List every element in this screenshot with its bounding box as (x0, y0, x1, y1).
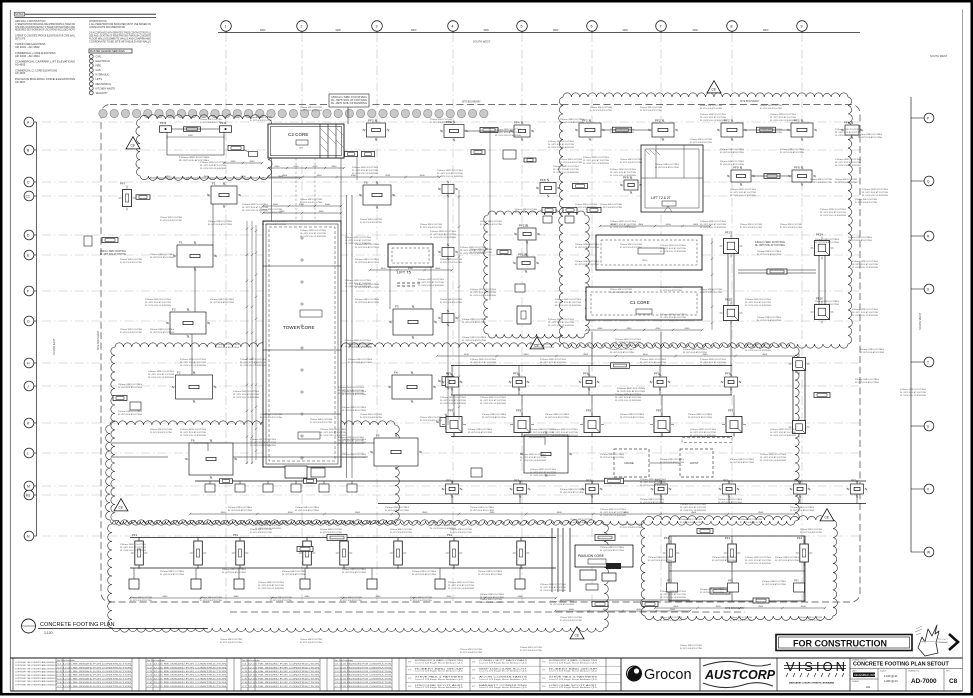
svg-text:150mm SRF FOOTING: 150mm SRF FOOTING (100, 251, 126, 253)
svg-text:RL -9975 SOIL AT FOOTING: RL -9975 SOIL AT FOOTING (300, 201, 322, 204)
footing bottom strip square #4 (300, 568, 310, 589)
drawing title section (850, 659, 963, 692)
ML band second chord (112, 456, 368, 458)
revision cloud bottom-right (641, 516, 838, 621)
svg-text:Rev Date Description: Rev Date Description (57, 659, 75, 662)
svg-text:150mm SRF FOOTING: 150mm SRF FOOTING (310, 419, 332, 421)
svg-text:150mm SRF FOOTING: 150mm SRF FOOTING (300, 639, 322, 641)
svg-text:RL -9975 SOIL AT FOOTING: RL -9975 SOIL AT FOOTING (545, 416, 569, 419)
svg-text:150mm SRF FOOTING: 150mm SRF FOOTING (120, 259, 142, 261)
svg-text:150mm SRF FOOTING: 150mm SRF FOOTING (617, 388, 645, 390)
svg-text:PF5: PF5 (586, 409, 592, 413)
svg-text:8: 8 (731, 25, 733, 29)
svg-text:150mm SRF FOOTING: 150mm SRF FOOTING (740, 519, 762, 521)
footing cloud-C pad a (514, 224, 540, 245)
svg-text:M: M (27, 484, 30, 488)
right grid line and bubbles (911, 97, 934, 557)
row3 beam bar (605, 478, 624, 484)
right small pads column (436, 181, 458, 431)
master legend symbol list (89, 55, 115, 95)
svg-text:RL -9975 SOIL AT FOOTING: RL -9975 SOIL AT FOOTING (520, 456, 546, 459)
Vision logo box (784, 658, 850, 691)
svg-text:9000: 9000 (411, 29, 417, 32)
svg-text:RL -9970 SOIL OF BLINDING: RL -9970 SOIL OF BLINDING (852, 267, 878, 269)
svg-text:RL -9975 SOIL AT FOOTING: RL -9975 SOIL AT FOOTING (552, 431, 578, 434)
bars pair below C2 (345, 152, 375, 157)
footing bottom strip tall #3 (x=240) (232, 533, 249, 569)
svg-text:150mm SRF FOOTING: 150mm SRF FOOTING (683, 349, 708, 351)
footing bottom strip tall #2 (x=198) (190, 537, 207, 569)
svg-text:150mm SRF FOOTING: 150mm SRF FOOTING (360, 414, 382, 416)
top grid line and bubbles 1-9 (218, 21, 860, 33)
svg-text:RL -9975 SOIL AT FOOTING: RL -9975 SOIL AT FOOTING (620, 161, 642, 164)
svg-text:150mm SRF FOOTING: 150mm SRF FOOTING (700, 589, 725, 591)
svg-text:RL -9970 SOIL OF BLINDING: RL -9970 SOIL OF BLINDING (640, 485, 666, 487)
svg-text:RL -9970 SOIL OF BLINDING: RL -9970 SOIL OF BLINDING (555, 305, 581, 307)
footing bottom strip tall #4 (x=307) (299, 537, 316, 569)
svg-text:AG: AG (866, 685, 871, 689)
footing row3 #6 (x=800) (790, 479, 811, 504)
svg-text:150mm SRF FOOTING: 150mm SRF FOOTING (470, 359, 496, 361)
svg-text:150mm SRF FOOTING: 150mm SRF FOOTING (900, 389, 926, 391)
svg-text:150mm SRF FOOTING: 150mm SRF FOOTING (242, 204, 268, 206)
svg-text:C2 12.05 RE-ISSUED FOR CONSTRU: C2 12.05 RE-ISSUED FOR CONSTRUCTION (335, 667, 392, 669)
scattered annotation notes set 2 (118, 119, 885, 606)
svg-text:150mm SRF FOOTING: 150mm SRF FOOTING (640, 499, 665, 501)
svg-text:3600: 3600 (188, 135, 194, 137)
svg-text:CF10: CF10 (642, 260, 648, 262)
svg-text:RL -9975 SOIL AT FOOTING: RL -9975 SOIL AT FOOTING (640, 361, 666, 364)
svg-text:C8: C8 (119, 506, 123, 510)
svg-text:150mm SRF FOOTING: 150mm SRF FOOTING (620, 159, 642, 161)
TL note text (179, 157, 210, 162)
svg-text:RL -9975 SOIL AT FOOTING: RL -9975 SOIL AT FOOTING (130, 599, 152, 602)
footing bottom strip tall #5 (x=344) (336, 533, 353, 569)
svg-text:RL -9975 SOIL AT FOOTING: RL -9975 SOIL AT FOOTING (282, 573, 306, 576)
svg-text:RL -9970 SOIL OF BLINDING: RL -9970 SOIL OF BLINDING (250, 445, 276, 447)
left boundary bar cluster (113, 396, 141, 411)
svg-text:4500: 4500 (666, 224, 672, 226)
svg-text:RL -9975 SOIL AT FOOTING: RL -9975 SOIL AT FOOTING (210, 301, 234, 304)
bottom strip bar d (297, 547, 313, 552)
svg-text:150mm SRF FOOTING: 150mm SRF FOOTING (555, 299, 581, 301)
hoist base dashed box (680, 449, 713, 477)
svg-text:150mm SRF FOOTING: 150mm SRF FOOTING (712, 557, 737, 559)
svg-text:150mm SRF FOOTING: 150mm SRF FOOTING (820, 209, 846, 211)
svg-text:4500: 4500 (673, 606, 679, 608)
bottom strip bar c (710, 588, 730, 594)
svg-text:RL -9975 SOIL AT FOOTING: RL -9975 SOIL AT FOOTING (660, 593, 686, 596)
dim vertical right col448 (458, 190, 460, 420)
C2 core dimension row below (267, 166, 345, 169)
svg-text:W: W (927, 550, 930, 554)
lift T5 to pad connector walls (390, 267, 431, 309)
svg-text:RL -9975 SOIL AT FOOTING: RL -9975 SOIL AT FOOTING (700, 107, 722, 110)
svg-text:C4 12.05 RE-ISSUED FOR CONSTRU: C4 12.05 RE-ISSUED FOR CONSTRUCTION (147, 675, 227, 677)
svg-text:150mm SRF FOOTING: 150mm SRF FOOTING (648, 557, 673, 559)
svg-text:4500: 4500 (351, 175, 357, 177)
svg-text:RL -9970 SOIL OF BLINDING: RL -9970 SOIL OF BLINDING (700, 227, 726, 229)
svg-text:RL -9975 SOIL AT FOOTING: RL -9975 SOIL AT FOOTING (430, 524, 456, 527)
footing bottom strip tall #8 (x=521) (513, 537, 530, 569)
svg-text:DECEMBER 2005: DECEMBER 2005 (854, 673, 876, 677)
svg-text:150mm SRF FOOTING: 150mm SRF FOOTING (770, 114, 796, 116)
svg-text:SOUTH WEST: SOUTH WEST (918, 312, 922, 330)
svg-text:ELECTRICAL: ELECTRICAL (96, 60, 111, 63)
svg-text:150mm SRF FOOTING: 150mm SRF FOOTING (570, 519, 592, 521)
svg-text:RL -9975 SOIL AT FOOTING: RL -9975 SOIL AT FOOTING (555, 301, 581, 304)
svg-text:PF1: PF1 (794, 479, 800, 483)
svg-text:RL -9970 SOIL OF BLINDING: RL -9970 SOIL OF BLINDING (495, 135, 521, 137)
svg-text:RL -9975 SOIL AT FOOTING: RL -9975 SOIL AT FOOTING (348, 346, 372, 349)
svg-text:3: 3 (376, 25, 378, 29)
svg-text:RL -9975 SOIL AT FOOTING: RL -9975 SOIL AT FOOTING (462, 321, 486, 324)
svg-text:AD 4603 - AD 4604: AD 4603 - AD 4604 (15, 55, 40, 58)
svg-text:RL -9975 SOIL AT FOOTING: RL -9975 SOIL AT FOOTING (420, 226, 442, 229)
svg-text:PF16: PF16 (816, 297, 823, 301)
svg-text:C6 12.05 RE-ISSUED FOR CONSTRU: C6 12.05 RE-ISSUED FOR CONSTRUCTION (57, 682, 132, 684)
svg-text:C4 12.05 RE-ISSUED FOR CONSTRU: C4 12.05 RE-ISSUED FOR CONSTRUCTION (242, 675, 320, 677)
svg-text:RL -9975 SOIL AT FOOTING: RL -9975 SOIL AT FOOTING (660, 619, 682, 622)
svg-text:F8: F8 (364, 181, 368, 185)
svg-text:150mm SRF FOOTING: 150mm SRF FOOTING (718, 499, 743, 501)
svg-text:SOUTH WEST: SOUTH WEST (473, 40, 491, 44)
svg-text:C8: C8 (575, 634, 579, 638)
svg-text:RL -9975 SOIL AT FOOTING: RL -9975 SOIL AT FOOTING (208, 223, 232, 226)
footing T5 base pad (389, 305, 437, 340)
footing bottom strip square #6 (435, 568, 445, 589)
svg-text:PF11: PF11 (519, 224, 526, 228)
svg-text:RL -9975 SOIL AT FOOTING: RL -9975 SOIL AT FOOTING (437, 172, 463, 175)
plan title bubble (22, 619, 36, 633)
svg-text:KITCHEN WASTE: KITCHEN WASTE (96, 87, 116, 90)
svg-text:150mm SRF FOOTING: 150mm SRF FOOTING (179, 157, 210, 159)
svg-text:150mm SRF FOOTING: 150mm SRF FOOTING (620, 244, 642, 246)
row1 beam note (617, 388, 645, 393)
svg-text:LIFTS: LIFTS (96, 78, 103, 81)
svg-text:150mm SRF FOOTING: 150mm SRF FOOTING (482, 414, 507, 416)
svg-text:Rev Date Description: Rev Date Description (335, 659, 353, 662)
svg-text:RL -9975 SOIL AT FOOTING: RL -9975 SOIL AT FOOTING (820, 211, 846, 214)
svg-text:150mm SRF FOOTING: 150mm SRF FOOTING (700, 221, 726, 223)
footing PF4 col5 (510, 121, 534, 142)
svg-text:RL -9975 SOIL AT FOOTING: RL -9975 SOIL AT FOOTING (410, 599, 432, 602)
link line top row (172, 128, 220, 130)
svg-text:SOUTH EAST: SOUTH EAST (52, 338, 56, 355)
svg-text:PF1: PF1 (583, 372, 589, 376)
footing PF1 row1 #1 (x=452) (442, 366, 463, 396)
svg-text:DATE: DATE (852, 670, 857, 673)
svg-text:RL -9970 SOIL OF BLINDING: RL -9970 SOIL OF BLINDING (690, 435, 716, 437)
svg-text:4500: 4500 (801, 606, 807, 608)
svg-text:PF1: PF1 (797, 536, 803, 540)
footing PF1 row1 #4 (x=660) (650, 366, 671, 396)
svg-text:RL -9970 SOIL OF BLINDING: RL -9970 SOIL OF BLINDING (258, 588, 284, 590)
svg-text:HOIST: HOIST (690, 461, 699, 465)
svg-text:PF1: PF1 (664, 536, 670, 540)
svg-text:RL -9975 SOIL AT FOOTING: RL -9975 SOIL AT FOOTING (560, 491, 584, 494)
left note small box (84, 236, 126, 256)
dim chain lift t2 (599, 224, 711, 227)
svg-text:RL -9975 SOIL AT FOOTING: RL -9975 SOIL AT FOOTING (495, 131, 521, 134)
svg-text:C5 12.05 RE-ISSUED FOR CONSTRU: C5 12.05 RE-ISSUED FOR CONSTRUCTION (147, 678, 227, 680)
tie bar 770 upper (764, 174, 780, 179)
svg-text:RL -9975 SOIL AT FOOTING: RL -9975 SOIL AT FOOTING (575, 263, 599, 266)
svg-text:PF1: PF1 (513, 372, 519, 376)
svg-text:RL -9975 SOIL AT FOOTING: RL -9975 SOIL AT FOOTING (240, 361, 266, 364)
lift T5 pit (388, 244, 433, 286)
svg-text:RL -9975 SOIL AT FOOTING: RL -9975 SOIL AT FOOTING (730, 461, 754, 464)
svg-text:150mm SRF FOOTING: 150mm SRF FOOTING (348, 344, 373, 346)
svg-text:RL -9975 SOIL AT FOOTING: RL -9975 SOIL AT FOOTING (640, 501, 664, 504)
footing bottom strip tall #6 (x=398) (390, 537, 407, 569)
svg-text:RL -9975 SOIL AT FOOTING: RL -9975 SOIL AT FOOTING (600, 456, 624, 459)
svg-text:RL -9970 SOIL OF BLINDING: RL -9970 SOIL OF BLINDING (352, 173, 378, 175)
svg-text:RL -9975 SOIL AT FOOTING: RL -9975 SOIL AT FOOTING (222, 571, 246, 574)
svg-text:RL -9975 SOIL AT FOOTING: RL -9975 SOIL AT FOOTING (800, 619, 822, 622)
svg-text:F2: F2 (172, 308, 176, 312)
svg-text:RL -9975 SOIL AT FOOTING: RL -9975 SOIL AT FOOTING (762, 583, 786, 586)
svg-text:PF5: PF5 (448, 409, 454, 413)
svg-text:RL -9975 SOIL AT FOOTING: RL -9975 SOIL AT FOOTING (720, 151, 744, 154)
svg-text:RL -9970 SOIL OF BLINDING: RL -9970 SOIL OF BLINDING (900, 395, 926, 397)
svg-text:150mm SRF FOOTING: 150mm SRF FOOTING (412, 571, 437, 573)
grade beam row 1 top chord (451, 365, 732, 367)
svg-text:150mm SRF FOOTING: 150mm SRF FOOTING (470, 249, 492, 251)
svg-text:4500: 4500 (638, 224, 644, 226)
svg-text:RL -9975 SOIL AT FOOTING: RL -9975 SOIL AT FOOTING (610, 171, 636, 174)
svg-text:150mm SRF FOOTING: 150mm SRF FOOTING (700, 289, 722, 291)
svg-text:RL -9970 SOIL OF BLINDING: RL -9970 SOIL OF BLINDING (437, 176, 463, 178)
svg-text:RL -9975 SOIL AT FOOTING: RL -9975 SOIL AT FOOTING (355, 246, 379, 249)
scattered annotation notes (120, 114, 926, 599)
svg-text:RL -9975 SOIL AT FOOTING: RL -9975 SOIL AT FOOTING (640, 481, 666, 484)
svg-text:4: 4 (452, 25, 454, 29)
svg-text:RL -9975 SOIL AT FOOTING: RL -9975 SOIL AT FOOTING (255, 524, 281, 527)
footing bottom strip tall #7 (x=454) (446, 533, 463, 569)
svg-text:RL -9975 SOIL AT FOOTING: RL -9975 SOIL AT FOOTING (730, 191, 756, 194)
svg-text:150mm SRF FOOTING: 150mm SRF FOOTING (300, 230, 326, 232)
svg-text:RL -9975 SOIL AT FOOTING: RL -9975 SOIL AT FOOTING (390, 531, 412, 534)
svg-text:RL -9975 SOIL AT FOOTING: RL -9975 SOIL AT FOOTING (815, 241, 839, 244)
svg-text:150mm SRF FOOTING: 150mm SRF FOOTING (355, 299, 380, 301)
svg-text:150mm SRF FOOTING: 150mm SRF FOOTING (320, 529, 342, 531)
svg-text:RL -9975 SOIL AT FOOTING: RL -9975 SOIL AT FOOTING (418, 281, 444, 284)
svg-text:PF13: PF13 (725, 231, 732, 235)
svg-text:150mm SRF FOOTING: 150mm SRF FOOTING (480, 599, 502, 601)
svg-text:RL -9975 SOIL AT FOOTING: RL -9975 SOIL AT FOOTING (150, 431, 172, 434)
svg-text:AD 4605: AD 4605 (15, 64, 26, 67)
footing PF14 top-right (811, 233, 834, 260)
footing row3 left cluster #4 (x=296) (291, 481, 301, 492)
svg-text:150mm SRF FOOTING: 150mm SRF FOOTING (208, 221, 233, 223)
svg-text:RL -9975 SOIL AT FOOTING: RL -9975 SOIL AT FOOTING (810, 181, 832, 184)
svg-text:150mm SRF FOOTING: 150mm SRF FOOTING (800, 529, 822, 531)
footing row3 left cluster #1 (x=210) (205, 481, 215, 492)
svg-text:RL -9975 SOIL AT FOOTING: RL -9975 SOIL AT FOOTING (120, 261, 142, 264)
cluster east of C2 bars (471, 150, 536, 162)
svg-text:RL -9975 SOIL AT FOOTING: RL -9975 SOIL AT FOOTING (600, 511, 626, 514)
svg-text:RL -9975 SOIL AT FOOTING: RL -9975 SOIL AT FOOTING (515, 211, 537, 214)
svg-text:150mm SRF FOOTING: 150mm SRF FOOTING (385, 507, 410, 509)
revision cloud centre (left of C1 core) (484, 211, 590, 338)
svg-text:RL -9975 SOIL AT FOOTING: RL -9975 SOIL AT FOOTING (352, 169, 378, 172)
svg-text:AD 4607: AD 4607 (15, 81, 26, 84)
left grid line and bubbles A-N (24, 117, 36, 541)
svg-text:RL -9975 SOIL AT FOOTING: RL -9975 SOIL AT FOOTING (412, 573, 436, 576)
inner border right line (962, 10, 964, 692)
svg-text:C3 12.05 RE-ISSUED FOR CONSTRU: C3 12.05 RE-ISSUED FOR CONSTRUCTION (147, 671, 227, 673)
svg-text:RL -9970 SOIL OF BLINDING: RL -9970 SOIL OF BLINDING (745, 350, 771, 352)
svg-text:150mm SRF FOOTING: 150mm SRF FOOTING (478, 571, 503, 573)
footing pad 633 (620, 176, 642, 195)
svg-text:150mm SRF FOOTING: 150mm SRF FOOTING (420, 417, 442, 419)
svg-text:150mm SRF FOOTING: 150mm SRF FOOTING (200, 119, 222, 121)
svg-text:150mm SRF FOOTING: 150mm SRF FOOTING (282, 571, 307, 573)
tower core walls (263, 221, 341, 478)
svg-text:RL -9975 SOIL AT FOOTING: RL -9975 SOIL AT FOOTING (745, 559, 771, 562)
revision triangle C8 #4 (114, 499, 128, 511)
BR bar bottom (753, 598, 769, 603)
svg-text:PF1: PF1 (233, 533, 239, 537)
master legend header (89, 49, 132, 53)
svg-text:150mm SRF FOOTING: 150mm SRF FOOTING (600, 547, 625, 549)
svg-text:RL -9970 SOIL OF BLINDING: RL -9970 SOIL OF BLINDING (233, 397, 259, 399)
svg-text:150mm SRF FOOTING: 150mm SRF FOOTING (250, 439, 276, 441)
svg-text:150mm SRF FOOTING: 150mm SRF FOOTING (480, 594, 505, 596)
secondary boundary dashed line bottom (230, 611, 745, 613)
dim vertical C1 right (711, 238, 713, 330)
svg-text:RL -9970 SOIL OF BLINDING: RL -9970 SOIL OF BLINDING (548, 147, 574, 149)
C1 core lower wall (586, 287, 702, 320)
svg-text:RL -9970 SOIL OF BLINDING: RL -9970 SOIL OF BLINDING (760, 460, 786, 462)
svg-text:RL -9975 SOIL AT FOOTING: RL -9975 SOIL AT FOOTING (615, 396, 641, 399)
dim chain below C2 (267, 175, 441, 178)
svg-text:150mm SRF FOOTING: 150mm SRF FOOTING (700, 105, 722, 107)
tie beam horizontal (738, 270, 816, 273)
svg-text:150mm SRF FOOTING: 150mm SRF FOOTING (560, 159, 582, 161)
svg-text:PF2: PF2 (655, 119, 661, 123)
C2 core to tower connector walls (272, 158, 342, 221)
svg-text:COPYRIGHT THE CONCEPTS AND DES: COPYRIGHT THE CONCEPTS AND DESIGN OF (15, 661, 58, 664)
svg-text:RL -9975 SOIL AT FOOTING: RL -9975 SOIL AT FOOTING (440, 399, 466, 402)
svg-text:4500: 4500 (716, 606, 722, 608)
svg-text:RL -9975 SOIL AT FOOTING: RL -9975 SOIL AT FOOTING (855, 381, 879, 384)
footing top right b (648, 119, 678, 142)
svg-text:RL -9975 SOIL AT FOOTING: RL -9975 SOIL AT FOOTING (148, 373, 174, 376)
svg-text:RL -9975 SOIL AT FOOTING: RL -9975 SOIL AT FOOTING (660, 289, 682, 292)
svg-text:RL -9975 SOIL AT FOOTING: RL -9975 SOIL AT FOOTING (270, 599, 292, 602)
svg-text:DRAWING No: DRAWING No (908, 670, 919, 673)
svg-text:RL -9970 SOIL OF BLINDING: RL -9970 SOIL OF BLINDING (200, 168, 226, 170)
svg-text:150mm SRF FOOTING: 150mm SRF FOOTING (145, 299, 171, 301)
C1 core dimension row (585, 328, 703, 331)
svg-text:RL -9975 SOIL AT FOOTING: RL -9975 SOIL AT FOOTING (385, 509, 409, 512)
svg-text:RL -9975 SOIL AT FOOTING: RL -9975 SOIL AT FOOTING (180, 431, 206, 434)
svg-text:RL -9975 SOIL AT FOOTING: RL -9975 SOIL AT FOOTING (550, 603, 574, 606)
svg-text:150mm SRF FOOTING: 150mm SRF FOOTING (560, 617, 582, 619)
grade beam row 3 bottom chord (378, 503, 866, 505)
svg-text:PF1: PF1 (723, 479, 729, 483)
dim chain pavilion (554, 609, 691, 612)
svg-text:150mm SRF FOOTING: 150mm SRF FOOTING (345, 340, 371, 342)
svg-text:4500: 4500 (524, 354, 530, 356)
svg-text:150mm SRF FOOTING: 150mm SRF FOOTING (348, 359, 373, 361)
svg-text:C7 12.05 RE-ISSUED FOR CONSTRU: C7 12.05 RE-ISSUED FOR CONSTRUCTION (147, 686, 227, 688)
svg-text:SOUTH WEST: SOUTH WEST (930, 54, 948, 58)
svg-text:RL -9975 SOIL AT FOOTING: RL -9975 SOIL AT FOOTING (342, 393, 366, 396)
svg-text:150mm SRF FOOTING: 150mm SRF FOOTING (745, 344, 771, 346)
footing BR tall #1 (663, 536, 680, 601)
BR beam loop (669, 536, 805, 601)
C2 core walls (268, 124, 344, 158)
svg-text:150mm SRF FOOTING: 150mm SRF FOOTING (360, 219, 382, 221)
svg-text:150mm SRF FOOTING: 150mm SRF FOOTING (655, 164, 680, 166)
svg-text:Level 4 123 Eagle Street Brisb: Level 4 123 Eagle Street Brisbane QLD (479, 661, 528, 664)
svg-text:RL -9975 SOIL AT FOOTING: RL -9975 SOIL AT FOOTING (470, 251, 492, 254)
svg-text:RL -9975 SOIL AT FOOTING: RL -9975 SOIL AT FOOTING (660, 247, 686, 250)
svg-text:RL -9975 SOIL AT FOOTING: RL -9975 SOIL AT FOOTING (478, 573, 502, 576)
svg-text:RL -9975 SOIL AT FOOTING: RL -9975 SOIL AT FOOTING (583, 159, 609, 162)
site boundary label top centre (462, 101, 481, 104)
footing row3 #4 (x=661) (651, 479, 672, 504)
svg-text:RL -9975 SOIL AT FOOTING: RL -9975 SOIL AT FOOTING (200, 121, 222, 124)
svg-text:CONCRETE FOOTING PLAN: CONCRETE FOOTING PLAN (40, 622, 115, 628)
svg-text:FOR CONSTRUCTION: FOR CONSTRUCTION (793, 639, 887, 649)
svg-text:Level 4 123 Eagle Street Brisb: Level 4 123 Eagle Street Brisbane QLD (549, 661, 598, 664)
svg-text:4500: 4500 (490, 512, 496, 514)
footing cloud-C pad b (513, 253, 539, 274)
svg-text:4500: 4500 (355, 512, 361, 514)
tie bar top row (184, 127, 201, 132)
svg-text:C2 12.05 RE-ISSUED FOR CONSTRU: C2 12.05 RE-ISSUED FOR CONSTRUCTION (57, 667, 132, 669)
svg-text:150mm SRF FOOTING: 150mm SRF FOOTING (583, 157, 609, 159)
footing PF5 row2 #5 (x=734) (722, 395, 746, 437)
svg-text:M1: M1 (26, 493, 31, 497)
footing bottom strip tall #1 (x=139) (131, 533, 148, 569)
bottom strip bar b (595, 535, 615, 541)
svg-text:150mm SRF FOOTING: 150mm SRF FOOTING (355, 284, 380, 286)
svg-text:150mm SRF FOOTING: 150mm SRF FOOTING (855, 199, 877, 201)
svg-text:RL -9975 SOIL AT FOOTING: RL -9975 SOIL AT FOOTING (342, 571, 366, 574)
svg-text:RL -9975 SOIL AT FOOTING: RL -9975 SOIL AT FOOTING (150, 331, 174, 334)
svg-text:150mm SRF FOOTING: 150mm SRF FOOTING (660, 245, 686, 247)
small bar C2 east (480, 128, 498, 133)
svg-text:RL -9975 SOIL AT FOOTING: RL -9975 SOIL AT FOOTING (575, 206, 597, 209)
svg-text:150mm SRF FOOTING: 150mm SRF FOOTING (848, 237, 873, 239)
svg-text:RL -9970 SOIL OF BLINDING: RL -9970 SOIL OF BLINDING (745, 305, 771, 307)
svg-text:4500: 4500 (758, 606, 764, 608)
footing pad L1 big (185, 439, 237, 480)
svg-text:RL -9975 SOIL AT FOOTING: RL -9975 SOIL AT FOOTING (360, 221, 382, 224)
svg-text:RL -9975 SOIL AT FOOTING: RL -9975 SOIL AT FOOTING (258, 584, 284, 587)
svg-text:9000: 9000 (484, 29, 490, 32)
footing bottom strip square #2 (191, 568, 201, 589)
bar beside PF7 (136, 195, 150, 200)
footing pad 548 (536, 178, 560, 198)
svg-text:RL -9975 SOIL AT FOOTING: RL -9975 SOIL AT FOOTING (340, 599, 362, 602)
footing bottom strip square #1 (129, 568, 139, 589)
svg-text:4500: 4500 (288, 512, 294, 514)
svg-text:RL -9975 SOIL AT FOOTING: RL -9975 SOIL AT FOOTING (575, 246, 599, 249)
svg-text:RL -9970 SOIL OF BLINDING: RL -9970 SOIL OF BLINDING (540, 590, 566, 592)
svg-text:RL -9970 SOIL OF BLINDING: RL -9970 SOIL OF BLINDING (600, 515, 626, 517)
footing near C2 east (440, 120, 468, 142)
svg-text:RL -9975 SOIL AT FOOTING: RL -9975 SOIL AT FOOTING (680, 521, 702, 524)
svg-text:150mm SRF FOOTING: 150mm SRF FOOTING (240, 359, 266, 361)
footing bottom strip square #7 (515, 568, 525, 589)
svg-text:RL -9975 SOIL AT FOOTING: RL -9975 SOIL AT FOOTING (862, 191, 888, 194)
